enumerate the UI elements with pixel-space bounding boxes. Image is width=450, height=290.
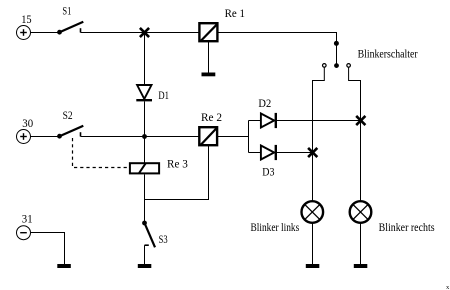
terminal 30 bbox=[17, 130, 31, 144]
wire node B to Re3 bbox=[144, 137, 146, 163]
node junction X right bbox=[356, 116, 365, 125]
ground under right lamp bbox=[354, 264, 368, 268]
lamp Blinker rechts bbox=[350, 201, 372, 223]
wire S2 to Re2 bbox=[81, 136, 199, 138]
svg-text:Blinker rechts: Blinker rechts bbox=[379, 222, 435, 234]
svg-text:D3: D3 bbox=[262, 166, 274, 178]
node pole dot bbox=[334, 63, 339, 68]
wire 15 to S1 bbox=[31, 32, 59, 34]
wire S3 to ground bbox=[144, 245, 146, 264]
wire D2 cathode to right line bbox=[277, 120, 361, 122]
svg-text:Blinker links: Blinker links bbox=[251, 222, 300, 234]
wire left lamp to ground bbox=[312, 223, 314, 265]
svg-text:30: 30 bbox=[22, 118, 33, 130]
diode D1 bbox=[136, 85, 152, 100]
diode D3 bbox=[261, 145, 276, 160]
svg-text:15: 15 bbox=[21, 14, 32, 26]
switch S3 bbox=[142, 221, 155, 248]
wire branch to D3 anode bbox=[249, 152, 261, 154]
switch S2 bbox=[57, 126, 83, 139]
wire right contact to right lamp line bbox=[349, 67, 361, 200]
switch Blinkerschalter contacts bbox=[323, 64, 351, 68]
svg-text:S2: S2 bbox=[63, 110, 73, 122]
node dot on pole wire bbox=[334, 41, 339, 46]
node junction X left bbox=[308, 148, 317, 157]
ground under S3 bbox=[138, 264, 152, 268]
wire D1 to node B bbox=[144, 102, 146, 137]
dashed linkage S2 to Re3 bbox=[73, 138, 129, 168]
relay Re 3 bbox=[130, 163, 159, 173]
relay Re 1 bbox=[199, 23, 217, 41]
switch S1 bbox=[57, 22, 83, 35]
svg-text:Re 2: Re 2 bbox=[201, 112, 222, 124]
wire X down to D1 bbox=[144, 33, 146, 85]
svg-text:S3: S3 bbox=[159, 234, 168, 246]
wire right lamp to ground bbox=[360, 223, 362, 265]
wire D3 cathode to left line bbox=[277, 152, 313, 154]
svg-text:Re 1: Re 1 bbox=[225, 8, 246, 20]
svg-text:S1: S1 bbox=[62, 6, 71, 18]
wire branch vertical bbox=[248, 121, 250, 153]
wire 30 to S2 bbox=[31, 136, 59, 138]
terminal 31 bbox=[17, 226, 31, 240]
ground under 31 bbox=[57, 264, 71, 268]
relay Re 2 bbox=[199, 127, 217, 145]
ground under left lamp bbox=[306, 264, 320, 268]
svg-text:D1: D1 bbox=[158, 90, 169, 102]
wire S1 to Re1 bbox=[81, 32, 199, 34]
wire 31 to ground bbox=[31, 233, 65, 265]
terminal 15 bbox=[17, 26, 31, 40]
svg-text:31: 31 bbox=[22, 214, 33, 226]
wire Re2 to branch bbox=[218, 136, 249, 138]
wire Re1 to Blinkerschalter pole bbox=[218, 33, 337, 67]
svg-text:D2: D2 bbox=[258, 98, 271, 110]
svg-text:Re 3: Re 3 bbox=[167, 158, 188, 170]
node junction X top bbox=[140, 28, 149, 37]
diode D2 bbox=[261, 113, 276, 128]
wire Re3 to S3 bbox=[144, 175, 146, 224]
wire left contact to left lamp line bbox=[313, 67, 325, 200]
wire Re1 coil to ground bbox=[208, 42, 210, 73]
node B junction dot bbox=[142, 134, 147, 139]
svg-text:Blinkerschalter: Blinkerschalter bbox=[358, 49, 418, 61]
ground under Re1 bbox=[202, 73, 216, 77]
wire Re2 coil bottom to column bbox=[145, 146, 209, 200]
lamp Blinker links bbox=[302, 201, 324, 223]
wire branch to D2 anode bbox=[249, 120, 261, 122]
